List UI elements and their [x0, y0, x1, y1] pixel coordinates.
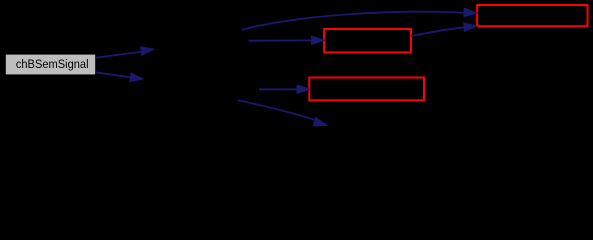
svg-text:chBSemSignal: chBSemSignal [16, 57, 89, 71]
